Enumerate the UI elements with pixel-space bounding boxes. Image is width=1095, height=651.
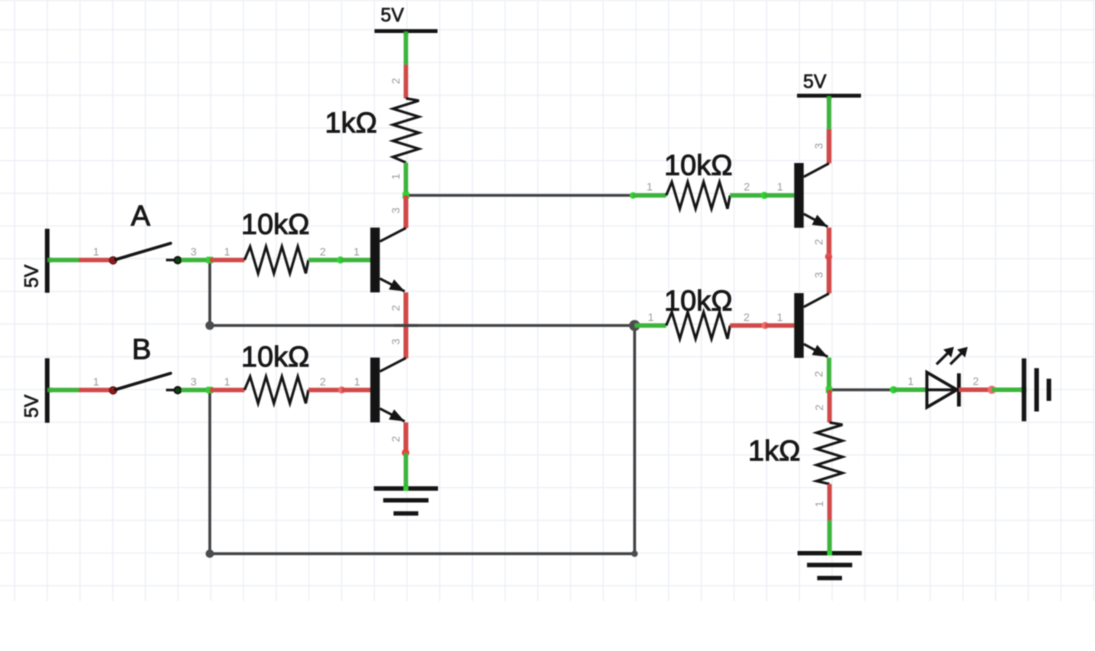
resistor R1 10kΩ pin 2 <box>308 247 340 261</box>
svg-text:1kΩ: 1kΩ <box>325 108 377 140</box>
transistor Q1 collector pin 3 <box>390 195 406 228</box>
power 5V V2 (input A) <box>22 229 47 293</box>
wire: R6 to ground <box>827 520 832 553</box>
node: V4 pin <box>827 96 832 100</box>
svg-text:10kΩ: 10kΩ <box>664 150 732 182</box>
resistor R2 10kΩ <box>241 341 309 403</box>
svg-text:2: 2 <box>390 305 402 311</box>
svg-text:1: 1 <box>814 501 826 507</box>
transistor Q1 emitter pin 2 <box>390 292 406 325</box>
svg-text:10kΩ: 10kΩ <box>664 285 732 317</box>
transistor Q2 base pin 1 <box>342 377 371 391</box>
svg-text:2: 2 <box>320 247 326 259</box>
transistor Q1 <box>370 228 406 293</box>
resistor R5 10kΩ pin 1 <box>635 312 667 326</box>
wire: V1 to R3 pin 2 <box>404 33 409 65</box>
switch SW2 (B) pin 1 <box>79 377 114 391</box>
wire: node A down to mid rail <box>208 260 211 326</box>
node: bottom rail corner right <box>631 551 637 557</box>
svg-text:1: 1 <box>93 377 99 389</box>
ground GND3 (rotated) <box>1024 358 1049 421</box>
resistor R2 10kΩ pin 1 <box>210 377 245 391</box>
wire: LED to ground GND3 <box>992 388 1022 393</box>
svg-text:2: 2 <box>320 377 326 389</box>
resistor R1 10kΩ <box>241 209 309 273</box>
svg-text:10kΩ: 10kΩ <box>241 341 309 373</box>
node: output wire to R4 pin 1 <box>630 192 637 199</box>
svg-text:1: 1 <box>353 247 359 259</box>
svg-text:1: 1 <box>777 182 783 194</box>
switch SW1 (A) <box>109 201 181 264</box>
wire: mid rail over crossing <box>394 324 418 327</box>
power 5V V1 (top) <box>375 6 438 32</box>
node: R4 to Q3 base <box>761 192 768 199</box>
svg-text:2: 2 <box>390 436 402 442</box>
power 5V V3 (input B) <box>22 358 47 423</box>
resistor R2 10kΩ pin 2 <box>308 377 341 391</box>
node A (junction square) <box>207 257 214 264</box>
node B (junction square) <box>207 387 214 394</box>
switch SW2 (B) <box>109 334 181 394</box>
svg-text:1: 1 <box>777 312 783 324</box>
transistor Q2 <box>370 358 406 423</box>
wire: Q2 emitter to ground <box>404 453 409 489</box>
svg-text:1: 1 <box>354 377 360 389</box>
ground GND2 <box>798 553 862 578</box>
svg-text:B: B <box>132 334 151 366</box>
node: V2 pin <box>47 258 52 263</box>
wire: mid rail horizontal to junction <box>210 324 635 327</box>
svg-text:A: A <box>131 201 151 233</box>
node: Q2 emitter to ground <box>402 449 410 457</box>
svg-text:1: 1 <box>908 376 914 388</box>
svg-text:1: 1 <box>93 247 99 259</box>
svg-text:2: 2 <box>813 239 825 245</box>
svg-text:3: 3 <box>190 247 196 259</box>
svg-text:2: 2 <box>744 182 750 194</box>
svg-text:5V: 5V <box>22 394 43 418</box>
svg-text:1kΩ: 1kΩ <box>748 435 800 467</box>
switch SW1 (A) pin 1 <box>79 247 114 261</box>
resistor R5 10kΩ <box>664 285 732 339</box>
transistor Q3 base pin 1 <box>764 182 794 196</box>
node: mid rail corner at node column <box>205 321 214 330</box>
transistor Q4 collector pin 3 <box>813 257 829 294</box>
wire: Q1 collector node to R4 (output net) <box>406 194 633 197</box>
svg-text:1: 1 <box>648 312 654 324</box>
wire: V2 to switch A <box>49 258 79 263</box>
transistor Q2 collector pin 3 <box>390 326 406 359</box>
node: Q3 emitter / Q4 collector <box>825 253 832 260</box>
svg-text:2: 2 <box>744 312 750 324</box>
node: ground pin <box>1021 387 1027 393</box>
resistor R4 10kΩ <box>664 150 732 209</box>
svg-text:5V: 5V <box>803 72 827 93</box>
svg-text:10kΩ: 10kΩ <box>241 209 309 241</box>
svg-text:2: 2 <box>973 376 979 388</box>
resistor R6 1kΩ pin 1 <box>814 484 830 520</box>
transistor Q3 collector pin 3 <box>813 129 829 163</box>
node: V1 pin <box>404 31 409 35</box>
svg-text:5V: 5V <box>381 6 405 27</box>
svg-text:3: 3 <box>813 143 825 149</box>
wire: V3 to switch B <box>49 388 79 393</box>
node: output (Q1 collector / R3 / wire) <box>403 192 410 199</box>
node: LED to ground <box>988 386 996 394</box>
node: ground GND1 pin <box>403 486 408 491</box>
svg-text:3: 3 <box>390 339 402 345</box>
transistor Q2 emitter pin 2 <box>390 422 406 452</box>
resistor R4 10kΩ pin 2 <box>730 182 764 196</box>
transistor Q4 emitter pin 2 <box>813 358 829 390</box>
svg-text:1: 1 <box>646 182 652 194</box>
svg-text:5V: 5V <box>22 264 43 288</box>
resistor R6 1kΩ <box>748 423 842 485</box>
node: mid rail junction (3-way) <box>629 320 640 331</box>
LED D1 pin 1 (anode) <box>894 376 927 390</box>
node: V3 pin <box>47 388 52 393</box>
resistor R3 1kΩ pin 2 <box>390 65 406 99</box>
switch SW2 (B) pin 3 <box>181 377 210 391</box>
transistor Q3 <box>794 163 829 228</box>
resistor R4 10kΩ pin 1 <box>633 182 666 196</box>
resistor R3 1kΩ pin 1 <box>390 163 406 196</box>
svg-text:2: 2 <box>813 371 825 377</box>
wire: V4 to Q3 collector <box>827 98 832 130</box>
svg-text:2: 2 <box>814 404 826 410</box>
svg-text:1: 1 <box>224 247 230 259</box>
svg-text:3: 3 <box>190 377 196 389</box>
node: Q4 emitter / LED / R6 <box>826 387 832 393</box>
svg-text:1: 1 <box>224 377 230 389</box>
node: R5 to Q4 base <box>762 322 769 329</box>
transistor Q1 base pin 1 <box>340 247 370 261</box>
svg-text:2: 2 <box>390 78 402 84</box>
LED D1 pin 2 (cathode) <box>959 376 992 390</box>
svg-text:1: 1 <box>390 173 402 179</box>
resistor R3 1kΩ <box>325 98 419 162</box>
resistor R1 10kΩ pin 1 <box>210 247 245 261</box>
node: wire to LED pin 1 <box>890 386 897 393</box>
transistor Q3 emitter pin 2 <box>813 228 829 257</box>
wire: bottom rail horizontal <box>210 552 635 555</box>
ground GND1 <box>374 489 438 514</box>
svg-text:3: 3 <box>390 207 402 213</box>
resistor R6 1kΩ pin 2 <box>814 390 830 423</box>
wire: Q4 emitter node to LED <box>829 388 894 391</box>
switch SW1 (A) pin 3 <box>181 247 210 261</box>
node: ground GND2 pin <box>827 551 832 556</box>
wire: junction column vertical (bottom rail up to mid rail) <box>633 326 636 554</box>
resistor R5 10kΩ pin 2 <box>730 312 765 326</box>
LED D1 <box>927 347 968 407</box>
node: R1 to Q1 base <box>337 256 344 263</box>
transistor Q4 <box>794 293 829 358</box>
power 5V V4 (right) <box>797 72 861 96</box>
node: bottom rail corner left <box>206 550 214 558</box>
transistor Q4 base pin 1 <box>765 312 794 326</box>
svg-text:3: 3 <box>813 272 825 278</box>
wire: node B down to bottom rail <box>208 390 211 554</box>
node: R2 to Q2 base <box>338 386 345 393</box>
